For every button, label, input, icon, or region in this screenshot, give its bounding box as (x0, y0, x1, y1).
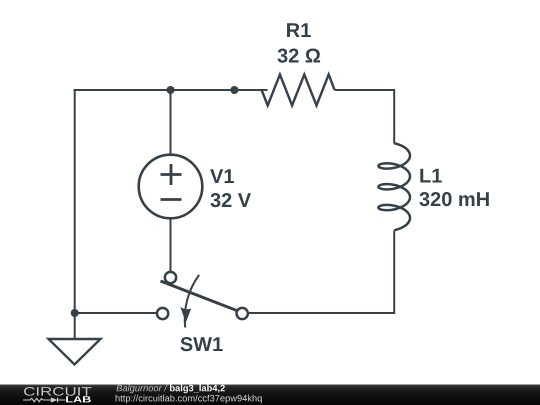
resistor R1 (262, 75, 335, 106)
wire ground stub (74, 313, 76, 340)
switch SW1 left terminal circle (157, 308, 168, 319)
CircuitLab logo diode triangle (51, 397, 58, 402)
switch SW1 actuation arrow arc (185, 275, 199, 328)
inductor L1 name label (420, 169, 441, 183)
ground symbol (49, 339, 101, 365)
wire V1 top (170, 90, 172, 155)
switch SW1 right terminal circle (237, 308, 248, 319)
wire resistor right to top-right corner (335, 90, 395, 144)
node junction dot bottom-left (ground node) (71, 309, 79, 317)
inductor L1 value label (419, 192, 488, 206)
node junction dot top (resistor left terminal) (230, 86, 238, 94)
resistor R1 value label (278, 49, 321, 63)
wire inductor bottom to bottom-right corner (247, 231, 394, 314)
CircuitLab logo wordmark LAB (66, 396, 91, 402)
node junction dot top-left (V1 to top wire) (167, 86, 175, 94)
wire top horizontal (74, 89, 268, 91)
switch SW1 top terminal circle (165, 272, 176, 283)
voltage source V1 value label (210, 193, 251, 207)
inductor L1 coil (378, 143, 410, 230)
wire bottom-left horizontal (75, 312, 158, 314)
footer bar background (0, 385, 540, 405)
switch SW1 actuation arrow head (180, 307, 191, 323)
voltage source V1 plus sign (161, 164, 182, 185)
CircuitLab logo resistor-diode underline (23, 398, 66, 403)
CircuitLab logo wordmark CIRCUIT (24, 387, 91, 396)
wire left vertical (74, 89, 76, 313)
switch SW1 name label (180, 337, 222, 351)
footer author/title line bold part (170, 385, 225, 394)
voltage source V1 minus sign (161, 198, 182, 201)
voltage source V1 name label (210, 169, 234, 183)
resistor R1 name label (287, 23, 311, 37)
voltage source V1 circle (139, 155, 203, 219)
wire V1 bottom (170, 218, 172, 272)
footer url line (116, 395, 262, 404)
footer author/title line italic part (116, 385, 167, 394)
switch SW1 lever (161, 281, 239, 311)
